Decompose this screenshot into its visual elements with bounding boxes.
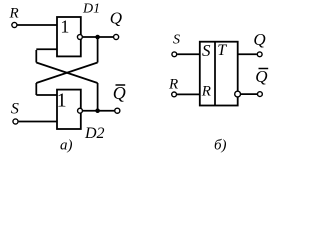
- terminal S block: [172, 52, 177, 57]
- svg-text:Q: Q: [255, 67, 267, 86]
- wire S input block: [177, 53, 200, 55]
- inversion circle D2 output: [78, 108, 83, 113]
- wire diagonal from bottom output up-left: [36, 63, 97, 84]
- flip-flop divider line: [214, 42, 216, 106]
- terminal Q block: [257, 52, 262, 57]
- gate D2 body: [57, 90, 81, 129]
- terminal Qbar block: [258, 92, 263, 97]
- svg-text:D1: D1: [82, 2, 100, 17]
- wire top junction down: [97, 37, 99, 63]
- terminal R: [12, 22, 17, 27]
- wire top output to Q: [83, 36, 113, 38]
- svg-text:R: R: [9, 6, 19, 22]
- svg-text:Q: Q: [113, 83, 126, 103]
- inversion circle Qbar output: [235, 91, 241, 97]
- svg-text:S: S: [173, 33, 180, 48]
- terminal R block: [172, 92, 177, 97]
- svg-text:1: 1: [57, 90, 67, 112]
- wire Qbar output block: [241, 93, 257, 95]
- wire S input: [19, 121, 57, 123]
- wire bottom gate top input: [36, 94, 57, 96]
- junction node bottom output: [95, 108, 100, 113]
- terminal Qbar: [115, 108, 120, 113]
- label Qbar right overline: [259, 68, 269, 70]
- wire left vertical lower: [35, 83, 37, 95]
- wire diagonal from top output down-left: [36, 63, 97, 84]
- svg-text:D2: D2: [84, 125, 105, 142]
- junction node top output: [95, 35, 100, 40]
- wire bottom junction up: [97, 83, 99, 111]
- svg-text:а): а): [60, 137, 73, 153]
- terminal Q: [114, 34, 119, 39]
- terminal S: [13, 119, 18, 124]
- gate D1 body: [57, 17, 81, 56]
- wire bottom output to Qbar: [83, 110, 115, 112]
- svg-text:S: S: [202, 41, 211, 60]
- label Qbar overline: [116, 84, 126, 86]
- wire left vertical upper: [35, 50, 37, 63]
- wire R input block: [177, 93, 200, 95]
- wire R input: [18, 24, 58, 26]
- wire top gate lower input: [36, 48, 57, 50]
- svg-text:Q: Q: [110, 8, 122, 27]
- svg-text:R: R: [168, 76, 178, 92]
- wire Q output block: [238, 53, 257, 55]
- svg-text:S: S: [11, 101, 19, 118]
- svg-text:1: 1: [60, 17, 69, 37]
- svg-text:б): б): [214, 137, 227, 153]
- svg-text:R: R: [201, 84, 211, 100]
- inversion circle D1 output: [77, 35, 82, 40]
- svg-text:Q: Q: [253, 30, 265, 49]
- svg-text:T: T: [217, 42, 227, 59]
- flip-flop block body: [200, 42, 238, 106]
